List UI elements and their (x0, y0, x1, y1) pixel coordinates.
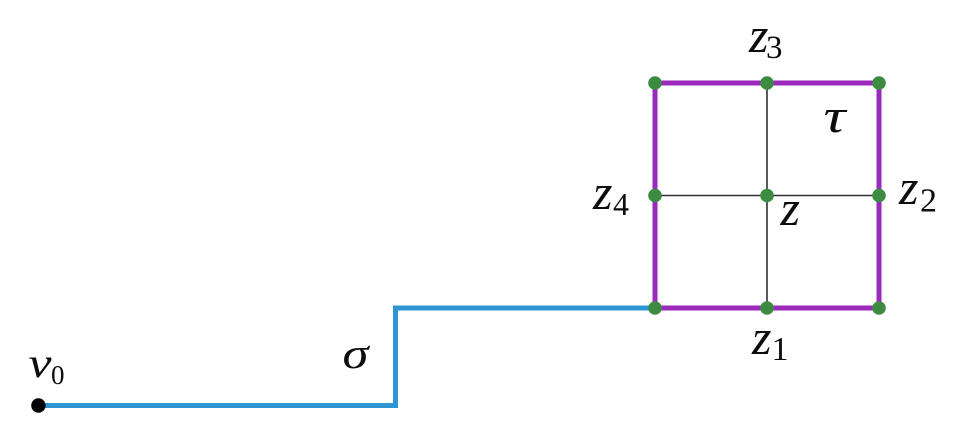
svg-text:z: z (780, 180, 800, 236)
node z1: bottom-middle vertex (760, 301, 774, 315)
svg-text:z2: z2 (898, 159, 937, 220)
node: top-left corner vertex (648, 76, 662, 90)
wire: thin vertical grid line through square center (766, 83, 768, 308)
svg-text:z3: z3 (748, 7, 782, 66)
svg-text:z4: z4 (592, 164, 629, 222)
wire sigma: blue path from node v0 up and right to square bottom-left corner (38, 308, 655, 406)
node z4: left-middle vertex (648, 189, 662, 203)
svg-text:v: v (29, 341, 52, 387)
node z: center vertex (760, 189, 774, 203)
node v0: black dot (31, 398, 45, 412)
node: bottom-left corner vertex (648, 301, 662, 315)
node z3: top-middle vertex (760, 76, 774, 90)
node z2: right-middle vertex (872, 189, 886, 203)
svg-text:0: 0 (51, 360, 65, 390)
wire: thin horizontal grid line through square center (655, 195, 879, 197)
node: bottom-right corner vertex (872, 301, 886, 315)
svg-text:τ: τ (824, 90, 848, 143)
svg-text:z1: z1 (751, 309, 788, 368)
wire: purple square boundary of 2-cell tau (655, 83, 879, 308)
node: top-right corner vertex (872, 76, 886, 90)
svg-text:σ: σ (343, 331, 371, 378)
